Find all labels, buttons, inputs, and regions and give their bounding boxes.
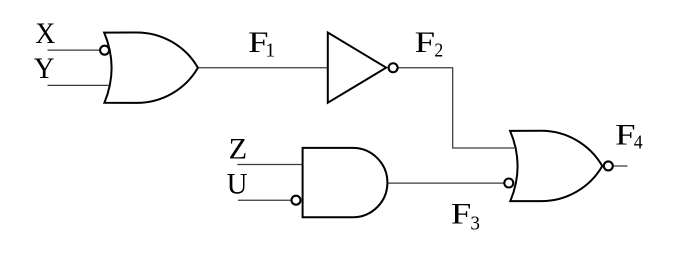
bubble G4 output bbox=[604, 161, 613, 170]
svg-text:2: 2 bbox=[434, 39, 443, 61]
svg-text:Y: Y bbox=[34, 52, 55, 85]
svg-text:F: F bbox=[451, 198, 471, 231]
wire Z input bbox=[237, 164, 304, 166]
wire X input bbox=[48, 49, 100, 51]
svg-text:X: X bbox=[35, 17, 55, 50]
wire Y input bbox=[48, 84, 111, 86]
and-gate G3 (Z,U inputs) bbox=[303, 148, 388, 217]
inverter U2 triangle bbox=[328, 33, 386, 103]
wire F2 net bbox=[398, 68, 514, 148]
svg-text:F: F bbox=[415, 26, 435, 59]
bubble on G4 input F3 bbox=[504, 179, 513, 188]
bubble on G1 input X bbox=[100, 46, 109, 55]
bubble on G3 input U bbox=[292, 196, 301, 205]
wire F4 output bbox=[614, 165, 628, 167]
wire U input bbox=[238, 199, 291, 201]
svg-text:F: F bbox=[615, 118, 635, 151]
svg-text:1: 1 bbox=[265, 39, 275, 61]
wire F1 net bbox=[197, 67, 327, 69]
svg-text:3: 3 bbox=[470, 213, 480, 235]
or-gate G4 (F2,F3 inputs) bbox=[510, 131, 602, 201]
bubble inverter output bbox=[389, 63, 398, 72]
svg-text:Z: Z bbox=[229, 133, 248, 166]
svg-text:4: 4 bbox=[634, 131, 643, 153]
svg-text:U: U bbox=[227, 168, 248, 201]
wire F3 net bbox=[387, 182, 504, 184]
or-gate G1 (X,Y inputs) bbox=[104, 32, 198, 102]
